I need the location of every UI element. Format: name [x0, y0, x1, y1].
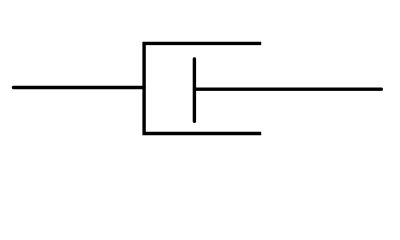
wire (right lead) [196, 87, 382, 90]
wire (left lead) [14, 86, 145, 89]
capacitor plate (inner bar electrode) [193, 59, 196, 121]
capacitor plate (outer open-box electrode) [144, 43, 261, 133]
capacitor C1 (polarized, boxed-plate style) [14, 43, 382, 133]
